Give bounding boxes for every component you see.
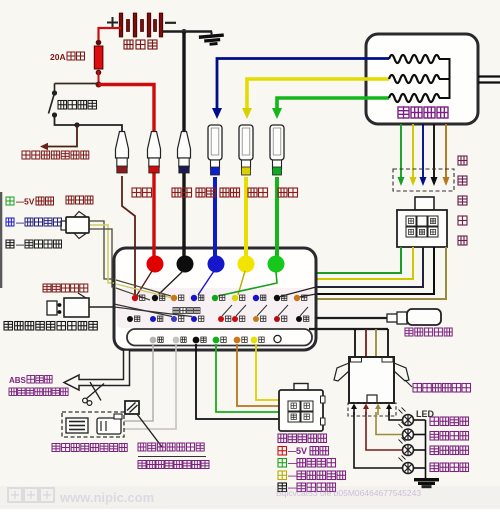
svg-text:—: — xyxy=(288,458,297,468)
svg-text:—: — xyxy=(16,241,24,250)
svg-text:5V: 5V xyxy=(24,197,35,207)
svg-text:ABS: ABS xyxy=(9,376,27,385)
svg-text:—: — xyxy=(288,471,297,481)
svg-text:www.nipic.com: www.nipic.com xyxy=(59,490,154,505)
svg-text:Bqlcvcat53 0le b05M06464677545: Bqlcvcat53 0le b05M06464677545243 xyxy=(276,488,421,498)
svg-text:5V: 5V xyxy=(296,446,307,456)
svg-text:20A: 20A xyxy=(50,52,66,62)
svg-text:—: — xyxy=(16,198,24,207)
svg-text:—: — xyxy=(16,219,24,228)
